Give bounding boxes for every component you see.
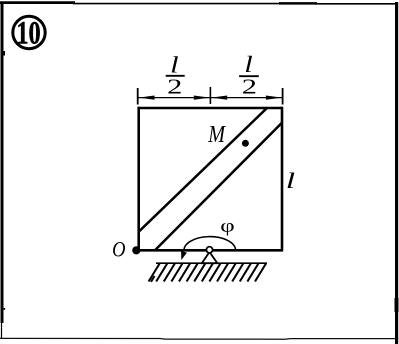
svg-text:10: 10 — [16, 15, 40, 51]
svg-text:l: l — [170, 52, 178, 78]
svg-text:O: O — [112, 238, 126, 262]
svg-text:2: 2 — [167, 75, 182, 98]
svg-text:l: l — [244, 51, 252, 77]
svg-text:l: l — [286, 168, 295, 193]
svg-text:2: 2 — [242, 75, 257, 98]
svg-text:φ: φ — [220, 215, 234, 236]
svg-text:M: M — [207, 120, 226, 147]
